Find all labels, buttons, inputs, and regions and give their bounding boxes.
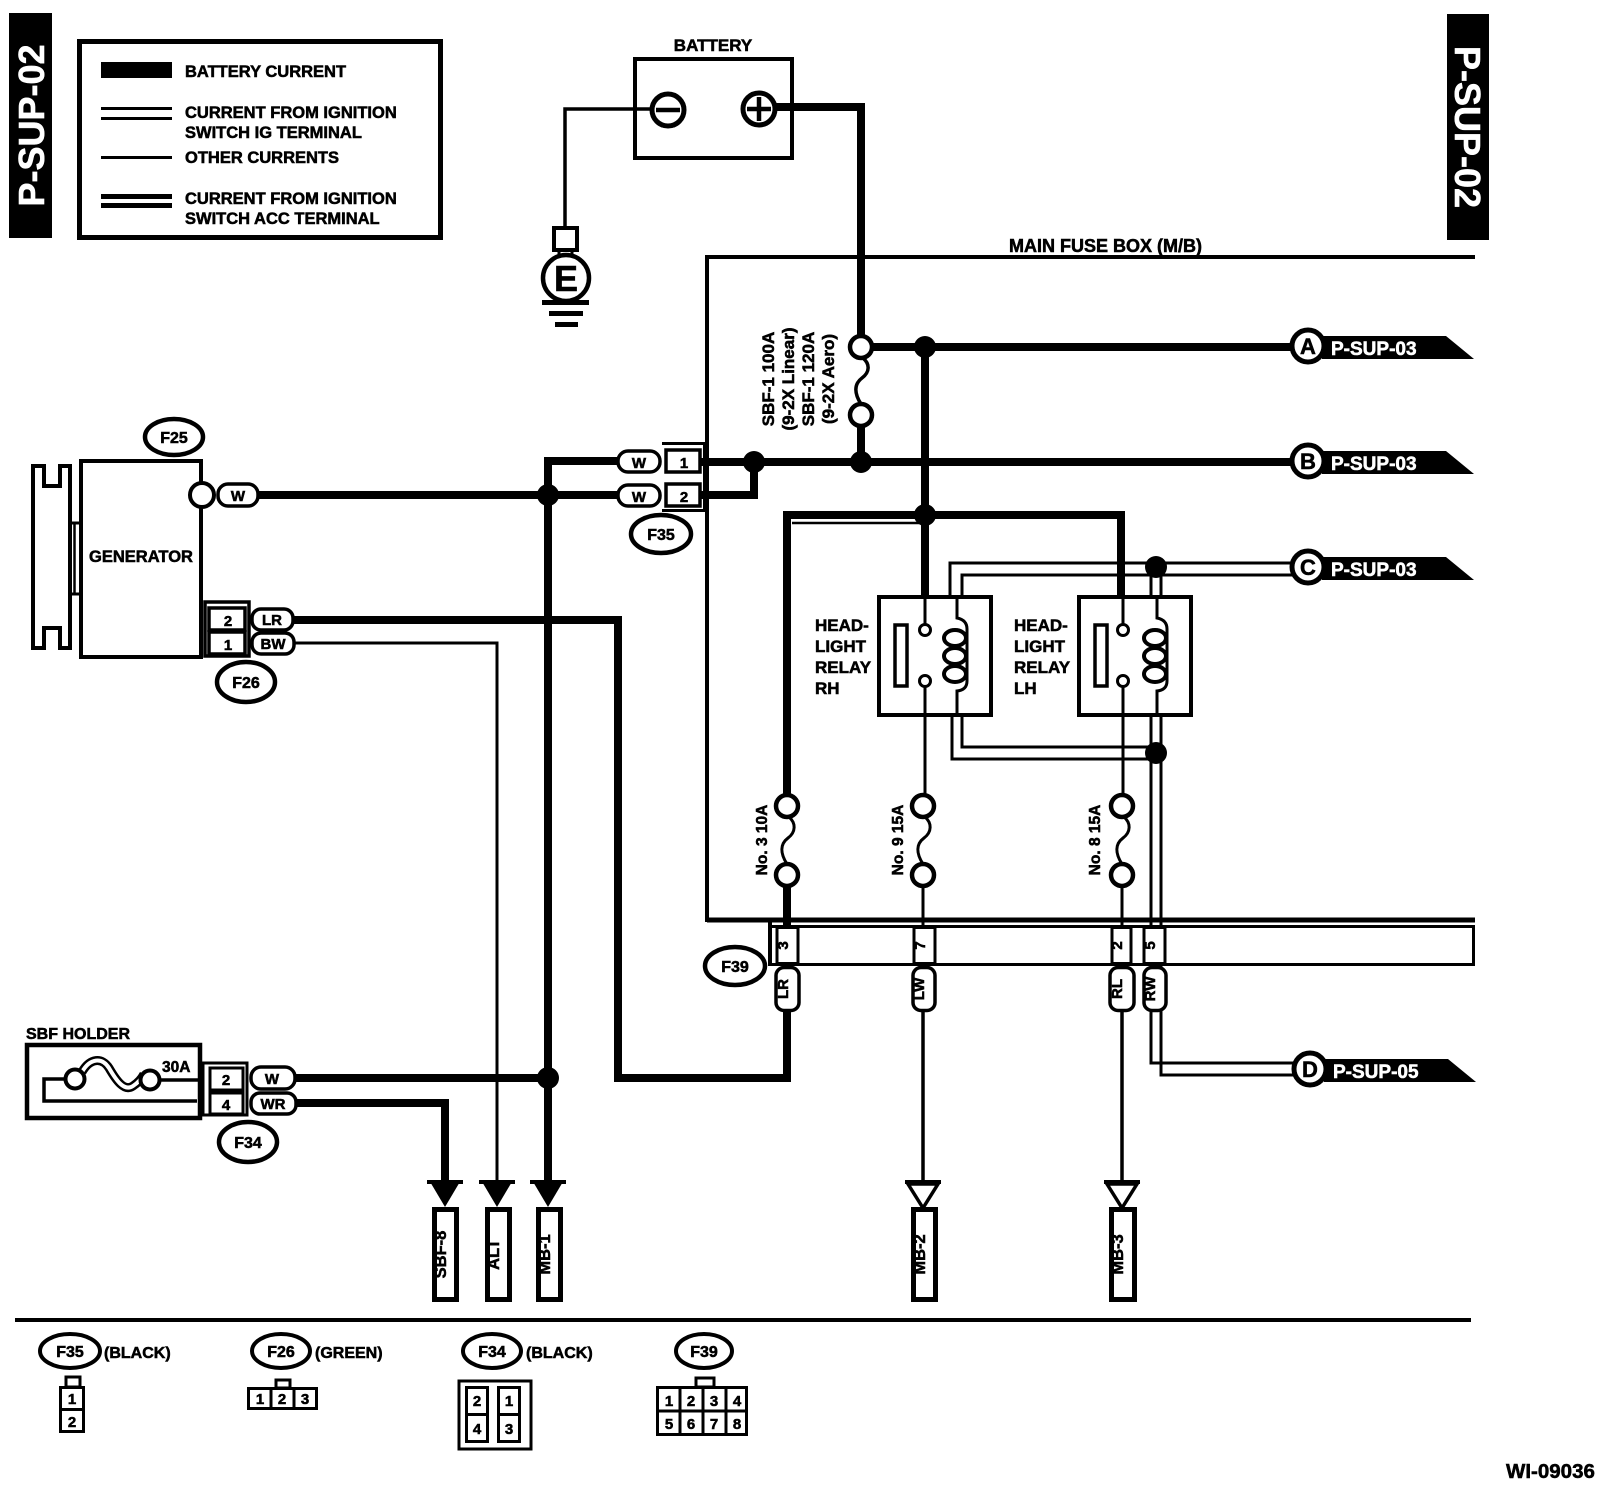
svg-text:F25: F25	[160, 430, 188, 447]
legend F39	[657, 1334, 747, 1435]
junction RW net	[1145, 742, 1167, 764]
svg-text:3: 3	[775, 941, 792, 949]
battery	[635, 36, 792, 158]
fuse No. 8 15A	[1087, 795, 1133, 886]
fuse No. 3 10A	[754, 795, 798, 886]
svg-text:(BLACK): (BLACK)	[104, 1345, 171, 1362]
connector F26 pin 1	[209, 632, 245, 654]
legend box	[80, 42, 441, 238]
connector F26 pin 2	[209, 608, 245, 630]
junction B at x754	[743, 451, 765, 473]
svg-text:1: 1	[256, 1391, 264, 1408]
legend IG double-line swatch	[101, 107, 172, 110]
label F34 ellipse	[219, 1122, 277, 1162]
svg-text:MB-2: MB-2	[911, 1234, 929, 1274]
relay RH coil	[944, 597, 967, 715]
wire y515 relay feed bus (thick)	[787, 511, 1121, 519]
connector F35 pin 1	[666, 450, 700, 472]
terminal LW pill (F39)	[911, 968, 935, 1011]
connector F34 pin 2	[210, 1068, 243, 1090]
svg-text:RL: RL	[1109, 979, 1126, 999]
wire y523 inner echo line	[792, 522, 921, 525]
relay LH contact pin wires	[1122, 597, 1125, 625]
label box MB-2	[911, 1210, 936, 1300]
svg-text:F35: F35	[56, 1344, 84, 1361]
connector F39 band	[770, 927, 1474, 965]
connector F34 shell	[203, 1063, 247, 1115]
arrow to MB-2 (hollow)	[905, 1180, 941, 1184]
legend other currents swatch	[101, 156, 172, 159]
svg-text:HEAD-: HEAD-	[1014, 616, 1068, 635]
svg-text:7: 7	[710, 1416, 718, 1433]
wire F35 pin2 row up to node B (thick)	[698, 466, 754, 495]
terminal W pill (F34)	[251, 1067, 295, 1089]
generator W pin circle	[190, 483, 214, 507]
svg-text:2: 2	[222, 1072, 230, 1089]
svg-text:P-SUP-02: P-SUP-02	[1447, 46, 1488, 208]
svg-text:3: 3	[710, 1393, 718, 1410]
svg-text:SBF-8: SBF-8	[432, 1231, 450, 1279]
wire LR generator to F39 pin3 (thick)	[293, 620, 787, 1078]
wire RW double-line down to D	[1151, 753, 1296, 1063]
svg-text:P-SUP-03: P-SUP-03	[1331, 560, 1417, 581]
svg-text:F34: F34	[478, 1344, 506, 1361]
relay RH contact slot	[895, 625, 907, 686]
svg-text:W: W	[231, 488, 246, 505]
connector F39 pin 3 cell	[775, 928, 798, 964]
svg-text:LW: LW	[911, 977, 928, 1000]
terminal RW pill (F39)	[1142, 968, 1166, 1011]
connector F39 pin 2 cell	[1109, 928, 1131, 964]
headlight relay LH box	[1014, 597, 1191, 715]
svg-text:3: 3	[505, 1421, 513, 1438]
svg-text:E: E	[554, 258, 578, 299]
svg-text:BATTERY CURRENT: BATTERY CURRENT	[185, 63, 346, 81]
svg-text:2: 2	[224, 613, 232, 630]
svg-text:MAIN FUSE BOX (M/B): MAIN FUSE BOX (M/B)	[1009, 236, 1202, 256]
wire W holder to MB-1 (thick)	[295, 1074, 544, 1082]
svg-text:F26: F26	[232, 675, 260, 692]
arrow banner C P-SUP-03	[1292, 551, 1474, 583]
svg-text:D: D	[1302, 1057, 1318, 1082]
wire A (thick battery current)	[872, 343, 1294, 351]
svg-text:SBF-1 120A: SBF-1 120A	[799, 332, 818, 426]
svg-text:4: 4	[473, 1421, 482, 1438]
connector F26 shell	[205, 602, 249, 656]
legend F34 (BLACK)	[459, 1334, 593, 1449]
wire C branch to relay LH coil	[1150, 563, 1153, 597]
arrow banner D P-SUP-05	[1294, 1053, 1476, 1085]
arrow to MB-3 (hollow)	[1104, 1180, 1140, 1184]
ground E	[542, 228, 589, 327]
wire C double-line upper (IG style)	[950, 563, 1294, 597]
label F39 ellipse	[705, 947, 765, 985]
terminal LR pill (F39)	[775, 968, 799, 1011]
svg-text:RELAY: RELAY	[1014, 658, 1071, 677]
svg-text:F39: F39	[721, 959, 749, 976]
svg-text:LR: LR	[262, 612, 282, 629]
svg-text:No. 8 15A: No. 8 15A	[1087, 805, 1104, 876]
relay LH coil	[1144, 597, 1167, 715]
svg-text:30A: 30A	[162, 1059, 190, 1076]
main fuse box (M/B)	[707, 236, 1475, 922]
arrow banner A P-SUP-03	[1292, 330, 1474, 362]
label F35 ellipse	[631, 515, 691, 553]
svg-text:P-SUP-03: P-SUP-03	[1331, 339, 1417, 360]
arrow to SBF-8	[427, 1180, 463, 1184]
svg-text:1: 1	[68, 1391, 76, 1408]
fuse SBF-1	[759, 328, 872, 431]
relay RH contact pin wires	[924, 597, 927, 625]
battery minus terminal	[652, 94, 684, 126]
headlight relay RH box	[815, 597, 991, 715]
terminal RL pill (F39)	[1109, 968, 1134, 1011]
arrow to ALT	[479, 1180, 515, 1184]
wire up-branch to F35 pin1 row (thick)	[548, 461, 620, 499]
wire x787 down to fuse No.3 (thick)	[783, 511, 791, 797]
wire RL to MB-3 (thin)	[1120, 1010, 1124, 1182]
svg-text:2: 2	[473, 1393, 481, 1410]
connector F35 pin 2	[666, 484, 700, 506]
svg-text:F34: F34	[234, 1135, 262, 1152]
svg-text:W: W	[265, 1071, 280, 1088]
svg-text:GENERATOR: GENERATOR	[89, 548, 193, 566]
svg-text:SWITCH IG TERMINAL: SWITCH IG TERMINAL	[185, 124, 362, 142]
wire BW generator to ALT (thin)	[294, 643, 497, 1181]
svg-text:WI-09036: WI-09036	[1506, 1460, 1595, 1483]
svg-text:F26: F26	[267, 1344, 295, 1361]
connector F35 shell	[662, 444, 705, 511]
wire vertical x925 A to relay feed (thick)	[921, 343, 929, 597]
svg-text:2: 2	[687, 1393, 695, 1410]
svg-text:F39: F39	[690, 1344, 718, 1361]
wire lower double-line outer (relay coils to RW)	[952, 715, 1160, 759]
svg-text:8: 8	[733, 1416, 741, 1433]
wire generator W to F35 (thick)	[256, 491, 620, 499]
connector F35 terminal W (row 2)	[618, 485, 660, 506]
wire fuse No.3 to F39 (thick)	[783, 884, 791, 930]
svg-text:P-SUP-05: P-SUP-05	[1333, 1062, 1419, 1083]
connector F39 pin 5 cell	[1142, 928, 1165, 964]
label F25 ellipse	[145, 419, 203, 455]
svg-text:CURRENT FROM IGNITION: CURRENT FROM IGNITION	[185, 104, 397, 122]
fuse No. 9 15A	[890, 795, 934, 886]
svg-text:P-SUP-03: P-SUP-03	[1331, 454, 1417, 475]
relay LH pin circles	[1118, 625, 1129, 636]
svg-text:(BLACK): (BLACK)	[526, 1345, 593, 1362]
svg-text:(9-2X Linear): (9-2X Linear)	[779, 328, 798, 431]
svg-text:CURRENT FROM IGNITION: CURRENT FROM IGNITION	[185, 190, 397, 208]
label box ALT	[485, 1210, 510, 1300]
junction W holder joins MB-1	[537, 1067, 559, 1089]
svg-text:(9-2X Aero): (9-2X Aero)	[819, 334, 838, 424]
wire LW to MB-2 (thin)	[921, 1010, 925, 1182]
connector F34 pin 4	[210, 1093, 243, 1114]
svg-text:F35: F35	[647, 527, 675, 544]
svg-text:B: B	[1300, 449, 1316, 474]
junction C net	[1145, 556, 1167, 578]
svg-text:WR: WR	[261, 1096, 286, 1113]
label box SBF-8	[432, 1210, 457, 1300]
wire relay LH coil down legs	[1150, 715, 1153, 755]
svg-text:C: C	[1300, 555, 1316, 580]
svg-text:No. 3 10A: No. 3 10A	[754, 805, 771, 876]
legend battery current swatch	[101, 62, 172, 78]
generator terminal W pill	[218, 484, 258, 506]
terminal WR pill (F34)	[251, 1093, 296, 1114]
svg-text:MB-3: MB-3	[1109, 1234, 1127, 1274]
svg-text:LIGHT: LIGHT	[1014, 637, 1066, 656]
wire fuse No.8 to F39 (thin)	[1121, 884, 1124, 930]
legend F35 (BLACK)	[40, 1334, 171, 1432]
svg-text:SBF HOLDER: SBF HOLDER	[26, 1026, 130, 1043]
wire x1121 down to relay LH (thick)	[1117, 511, 1125, 597]
label F26 ellipse	[217, 662, 275, 702]
SBF HOLDER	[26, 1026, 200, 1118]
junction x925 y515	[914, 504, 936, 526]
relay LH contact slot	[1095, 625, 1107, 686]
svg-text:No. 9 15A: No. 9 15A	[890, 805, 907, 876]
svg-text:3: 3	[301, 1391, 309, 1408]
svg-text:6: 6	[687, 1416, 695, 1433]
connector F39 band left cap	[768, 920, 772, 966]
svg-text:W: W	[632, 489, 647, 506]
terminal BW pill	[252, 633, 294, 654]
junction A / x925	[914, 336, 936, 358]
wire lower double-line inner	[962, 715, 1156, 747]
svg-text:BATTERY: BATTERY	[674, 36, 753, 55]
svg-text:2: 2	[68, 1414, 76, 1431]
svg-text:1: 1	[224, 637, 232, 654]
svg-text:5: 5	[665, 1416, 673, 1433]
svg-text:2: 2	[1109, 941, 1126, 949]
svg-text:ALT: ALT	[485, 1239, 503, 1270]
svg-text:HEAD-: HEAD-	[815, 616, 869, 635]
wire fuse SBF-1 to node B (thick)	[857, 426, 865, 466]
battery plus terminal	[743, 93, 775, 125]
svg-text:OTHER CURRENTS: OTHER CURRENTS	[185, 149, 339, 167]
generator box	[81, 461, 201, 657]
svg-text:5: 5	[1142, 941, 1159, 949]
svg-text:RH: RH	[815, 679, 840, 698]
wire C double-line lower	[962, 575, 1294, 597]
svg-text:BW: BW	[261, 636, 287, 653]
svg-text:1: 1	[680, 455, 688, 472]
svg-text:A: A	[1300, 334, 1316, 359]
svg-text:4: 4	[222, 1097, 231, 1114]
junction B at x861	[850, 451, 872, 473]
terminal LR pill	[252, 609, 293, 630]
wire WR holder to SBF-8 (thick)	[296, 1103, 445, 1181]
svg-text:SBF-1 100A: SBF-1 100A	[759, 332, 778, 426]
legend F26 (GREEN)	[249, 1334, 383, 1409]
page tab right P-SUP-02	[1447, 14, 1489, 240]
connector F39 pin 7 cell	[912, 928, 935, 964]
label box MB-3	[1109, 1210, 1135, 1300]
svg-text:LH: LH	[1014, 679, 1037, 698]
svg-text:LIGHT: LIGHT	[815, 637, 867, 656]
svg-text:(GREEN): (GREEN)	[315, 1345, 383, 1362]
svg-text:RW: RW	[1142, 976, 1159, 1002]
svg-text:1: 1	[665, 1393, 673, 1410]
junction MB-1 tap at (548,495)	[537, 484, 559, 506]
svg-text:MB-1: MB-1	[536, 1234, 554, 1274]
svg-text:4: 4	[733, 1393, 742, 1410]
page tab left P-SUP-02	[9, 13, 52, 238]
svg-text:2: 2	[278, 1391, 286, 1408]
bottom separator line	[15, 1318, 1471, 1322]
arrow banner B P-SUP-03	[1292, 445, 1474, 477]
svg-text:7: 7	[912, 941, 929, 949]
svg-text:W: W	[632, 455, 647, 472]
svg-text:P-SUP-02: P-SUP-02	[11, 44, 52, 206]
fuse 30A inside holder	[44, 1059, 199, 1101]
arrow to MB-1	[530, 1180, 566, 1184]
generator pulley	[33, 466, 81, 648]
svg-text:SWITCH ACC TERMINAL: SWITCH ACC TERMINAL	[185, 210, 380, 228]
wire MB-1 vertical (thick)	[544, 495, 552, 1182]
wire fuse No.9 to F39 (thin)	[922, 884, 925, 930]
wire battery minus to ground E	[565, 109, 653, 228]
svg-text:2: 2	[680, 489, 688, 506]
wire B (thick battery current)	[698, 458, 1294, 466]
wire battery plus (thick)	[773, 107, 861, 340]
svg-text:RELAY: RELAY	[815, 658, 872, 677]
relay RH pin circles	[920, 625, 931, 636]
label box MB-1	[536, 1210, 561, 1300]
legend ACC double-thick swatch	[101, 194, 172, 199]
connector F35 terminal W (row 1)	[618, 451, 660, 472]
svg-text:1: 1	[505, 1393, 513, 1410]
svg-text:LR: LR	[775, 979, 792, 999]
